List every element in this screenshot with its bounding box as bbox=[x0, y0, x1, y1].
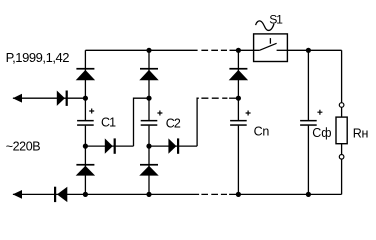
svg-text:Rн: Rн bbox=[353, 126, 369, 140]
svg-text:~220В: ~220В bbox=[6, 140, 41, 154]
svg-text:P,1999,1,42: P,1999,1,42 bbox=[6, 50, 70, 65]
svg-text:S1: S1 bbox=[269, 12, 283, 26]
svg-text:C1: C1 bbox=[101, 115, 116, 129]
svg-text:Cn: Cn bbox=[254, 125, 270, 139]
svg-text:C2: C2 bbox=[166, 117, 181, 131]
svg-text:Сф: Сф bbox=[312, 126, 331, 140]
